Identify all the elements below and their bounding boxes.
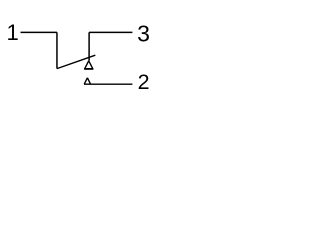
svg-text:1: 1: [7, 20, 19, 45]
wire pin 1 horizontal: [21, 31, 57, 33]
throw contact triangle sides (pin 2): [84, 78, 90, 84]
throw contact triangle base (pin 3): [84, 68, 93, 70]
wire pin 3 vertical: [88, 32, 90, 60]
wire pin 3 horizontal: [89, 31, 132, 33]
wire pin 2 horizontal with triangle base: [84, 83, 132, 85]
svg-text:2: 2: [138, 70, 150, 94]
throw contact triangle sides (pin 3): [85, 61, 93, 69]
svg-text:3: 3: [137, 21, 150, 47]
wire pin 1 vertical: [56, 32, 58, 68]
switch arm from pole: [57, 55, 95, 68]
